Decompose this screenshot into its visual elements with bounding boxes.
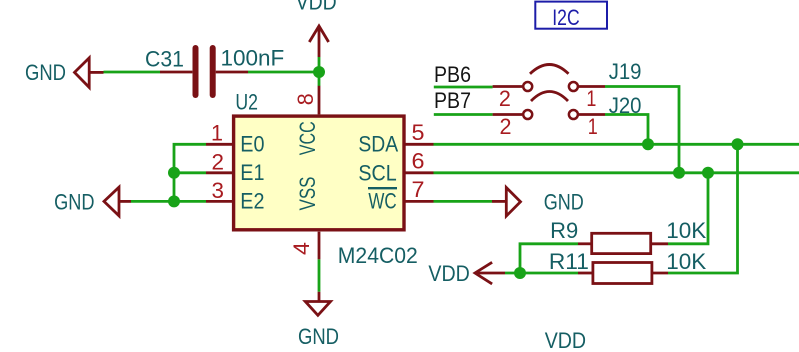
svg-text:E1: E1: [240, 160, 264, 185]
svg-text:PB7: PB7: [434, 88, 471, 113]
svg-text:GND: GND: [544, 189, 584, 214]
svg-text:R9: R9: [550, 218, 578, 243]
svg-text:J20: J20: [609, 93, 642, 118]
svg-text:GND: GND: [25, 60, 66, 85]
svg-text:7: 7: [412, 177, 425, 202]
svg-text:4: 4: [289, 242, 314, 255]
svg-text:VDD: VDD: [428, 261, 469, 286]
svg-text:1: 1: [586, 86, 596, 111]
svg-text:R11: R11: [549, 249, 589, 274]
svg-text:J19: J19: [609, 59, 642, 84]
svg-text:WC: WC: [368, 189, 396, 214]
svg-text:VDD: VDD: [545, 328, 586, 352]
svg-text:C31: C31: [145, 46, 184, 71]
svg-text:1: 1: [588, 114, 598, 139]
svg-text:M24C02: M24C02: [338, 243, 418, 268]
svg-text:PB6: PB6: [434, 62, 471, 87]
svg-text:2: 2: [212, 150, 225, 175]
svg-text:10K: 10K: [666, 218, 706, 243]
svg-text:6: 6: [412, 148, 425, 173]
svg-text:VCC: VCC: [295, 121, 320, 155]
svg-text:VSS: VSS: [295, 177, 320, 211]
svg-text:U2: U2: [235, 90, 258, 115]
svg-text:1: 1: [211, 121, 223, 146]
svg-text:8: 8: [293, 93, 318, 105]
svg-text:E2: E2: [240, 188, 264, 213]
svg-text:SCL: SCL: [358, 160, 396, 185]
svg-text:10K: 10K: [666, 249, 706, 274]
svg-text:SDA: SDA: [358, 132, 398, 157]
svg-text:GND: GND: [54, 189, 94, 214]
svg-text:I2C: I2C: [552, 5, 579, 30]
svg-text:3: 3: [212, 178, 225, 203]
svg-text:GND: GND: [298, 324, 339, 349]
svg-text:2: 2: [500, 114, 512, 139]
svg-text:5: 5: [412, 120, 425, 145]
svg-text:E0: E0: [240, 131, 264, 156]
svg-text:VDD: VDD: [296, 0, 337, 15]
svg-text:2: 2: [499, 86, 511, 111]
svg-text:100nF: 100nF: [221, 46, 285, 71]
